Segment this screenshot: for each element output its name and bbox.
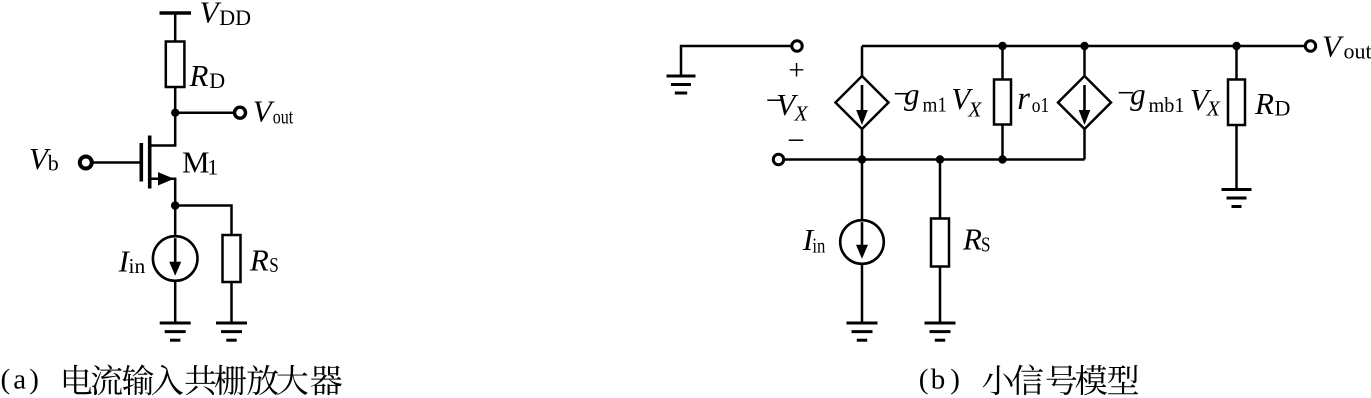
wire D2 bottom [1083,129,1086,160]
svg-text:(a): (a) [1,364,39,396]
wire ro1 bottom [1001,125,1004,160]
label M1 [182,145,218,180]
label plus [788,54,804,86]
label -gmb1VX [1117,75,1221,121]
svg-text:(b): (b) [919,364,960,396]
dependent source -gm1VX [836,76,889,129]
wire Iin to ground (b) [861,264,864,323]
wire top-left ground to terminal [681,46,792,75]
label -VX [766,83,809,126]
ground top-left [667,76,696,93]
wire node to Vout terminal [175,111,234,114]
svg-text:−: − [787,123,804,158]
dependent source -gmb1VX [1058,76,1111,129]
label Iin (b) [802,222,826,257]
label RD (b) [1254,86,1290,121]
ground under RS [216,323,247,340]
wire Vb to gate [92,161,140,164]
node dot ro1 bottom [998,155,1006,163]
terminal Vb [80,157,92,169]
wire RD to ground [1235,125,1238,190]
label RS [249,243,279,278]
wire D1 top [861,46,864,76]
node dot RS top (b) [936,155,944,163]
svg-text:+: + [788,54,804,86]
wire D2 top [1083,46,1086,76]
ground under Iin (b) [847,323,878,340]
label minus [787,123,804,158]
terminal plus [792,41,802,51]
current source Iin (b) [840,220,884,264]
label Vb [29,141,59,176]
terminal X (bottom) [773,154,783,164]
wire RD top [1235,46,1238,80]
wire source node to RS corner [175,206,231,236]
resistor RS (b) [931,219,949,267]
wire VDD to RD [174,13,177,42]
ground under RD [1222,190,1252,207]
caption (b) 小信号模型 [919,364,1138,396]
transistor M1 [141,136,176,206]
wire rail to Iin (b) [861,160,864,222]
label RD [189,58,226,93]
terminal Vout [235,107,246,118]
top rail wire [862,45,1305,48]
wire node to Iin [174,206,177,238]
node dot Iin top (b) [858,155,866,163]
label Vout (b) [1322,29,1371,64]
wire D1 bottom [861,129,864,160]
node dot D2 top [1080,42,1088,50]
node source dot [171,201,180,210]
node dot RD top [1232,42,1240,50]
label Iin [118,244,146,279]
resistor RD [166,42,185,88]
power VDD T-bar [160,11,192,15]
label Vout [253,94,293,129]
current source Iin [153,236,198,281]
node dot ro1 top [998,42,1006,50]
wire rail to RS (b) [939,160,942,219]
node drain/out dot [171,109,179,117]
wire RS to ground [230,282,233,323]
wire ro1 top [1001,46,1004,80]
wire RD to drain [174,87,177,146]
label RS (b) [962,222,991,257]
ground under RS (b) [925,323,956,340]
label -gm1VX [893,76,982,121]
resistor ro1 [994,80,1011,125]
label ro1 [1017,81,1049,117]
resistor RS [223,235,241,282]
caption (a) 电流输入共栅放大器 [1,364,342,396]
wire Iin to ground [174,281,177,323]
wire RS to ground (b) [939,267,942,324]
svg-text:VDD: VDD [200,0,252,30]
terminal Vout (b) [1305,41,1315,51]
label VDD [200,0,252,30]
resistor RD (b) [1228,80,1245,126]
bottom rail wire [784,158,1085,161]
ground under Iin [160,323,191,340]
